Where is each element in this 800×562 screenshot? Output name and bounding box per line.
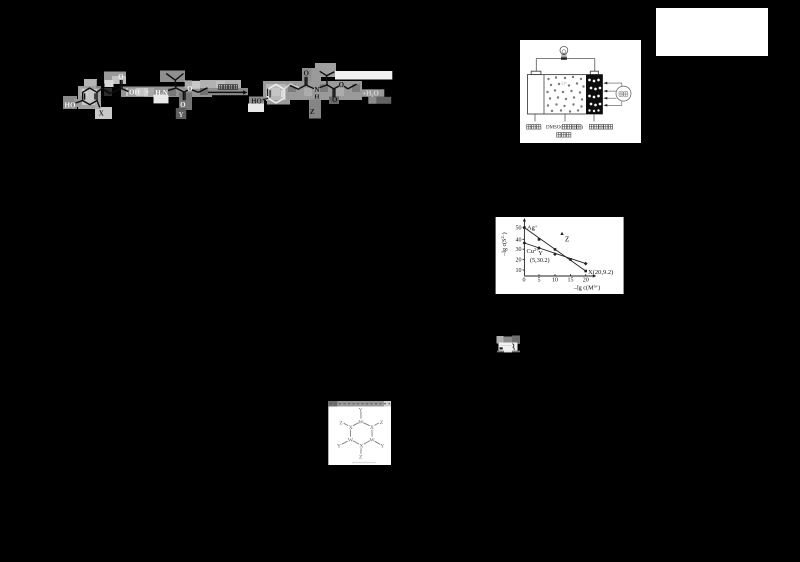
svg-text:W: W [369,437,375,443]
svg-text:10: 10 [516,268,522,274]
svg-text:Y: Y [178,111,183,119]
svg-text:O: O [187,85,193,93]
svg-text:+H₂O: +H₂O [362,91,379,98]
svg-text:OH: OH [129,89,140,97]
svg-text:5: 5 [538,278,541,284]
svg-text:Z: Z [310,108,315,116]
svg-text:(5,30.2): (5,30.2) [530,257,550,264]
svg-text:Z: Z [565,236,569,244]
svg-text:O: O [180,101,186,109]
svg-text:0: 0 [523,278,526,284]
svg-text:H: H [314,93,319,100]
svg-text:Z: Z [359,455,363,461]
svg-text:X(20,9.2): X(20,9.2) [588,269,613,276]
svg-text:W: W [358,419,364,425]
svg-text:X: X [99,110,104,118]
svg-text:+: + [145,88,150,97]
svg-text:Y: Y [359,407,363,413]
svg-text:Y: Y [337,444,341,450]
svg-text:15: 15 [568,278,574,284]
svg-text:20: 20 [583,278,589,284]
svg-text:O: O [332,96,338,104]
svg-text:O: O [118,73,124,81]
svg-text:O: O [303,70,309,78]
svg-text:O: O [339,81,345,89]
svg-text:40: 40 [516,237,522,243]
svg-text:X: X [349,425,353,431]
svg-text:HO: HO [65,102,76,110]
svg-text:X: X [359,443,363,449]
svg-text:Y: Y [380,444,384,450]
svg-text:10: 10 [552,278,558,284]
svg-text:DMSO(: DMSO( [546,125,562,130]
svg-text:H₂N: H₂N [155,89,168,97]
svg-text:Z: Z [339,420,343,426]
svg-text:X: X [370,425,374,431]
svg-text:HO: HO [251,98,262,105]
svg-text:Z: Z [380,420,384,426]
svg-text:20: 20 [516,257,522,263]
svg-text:W: W [348,437,354,443]
svg-text:30: 30 [516,247,522,253]
svg-text:50: 50 [516,226,522,232]
